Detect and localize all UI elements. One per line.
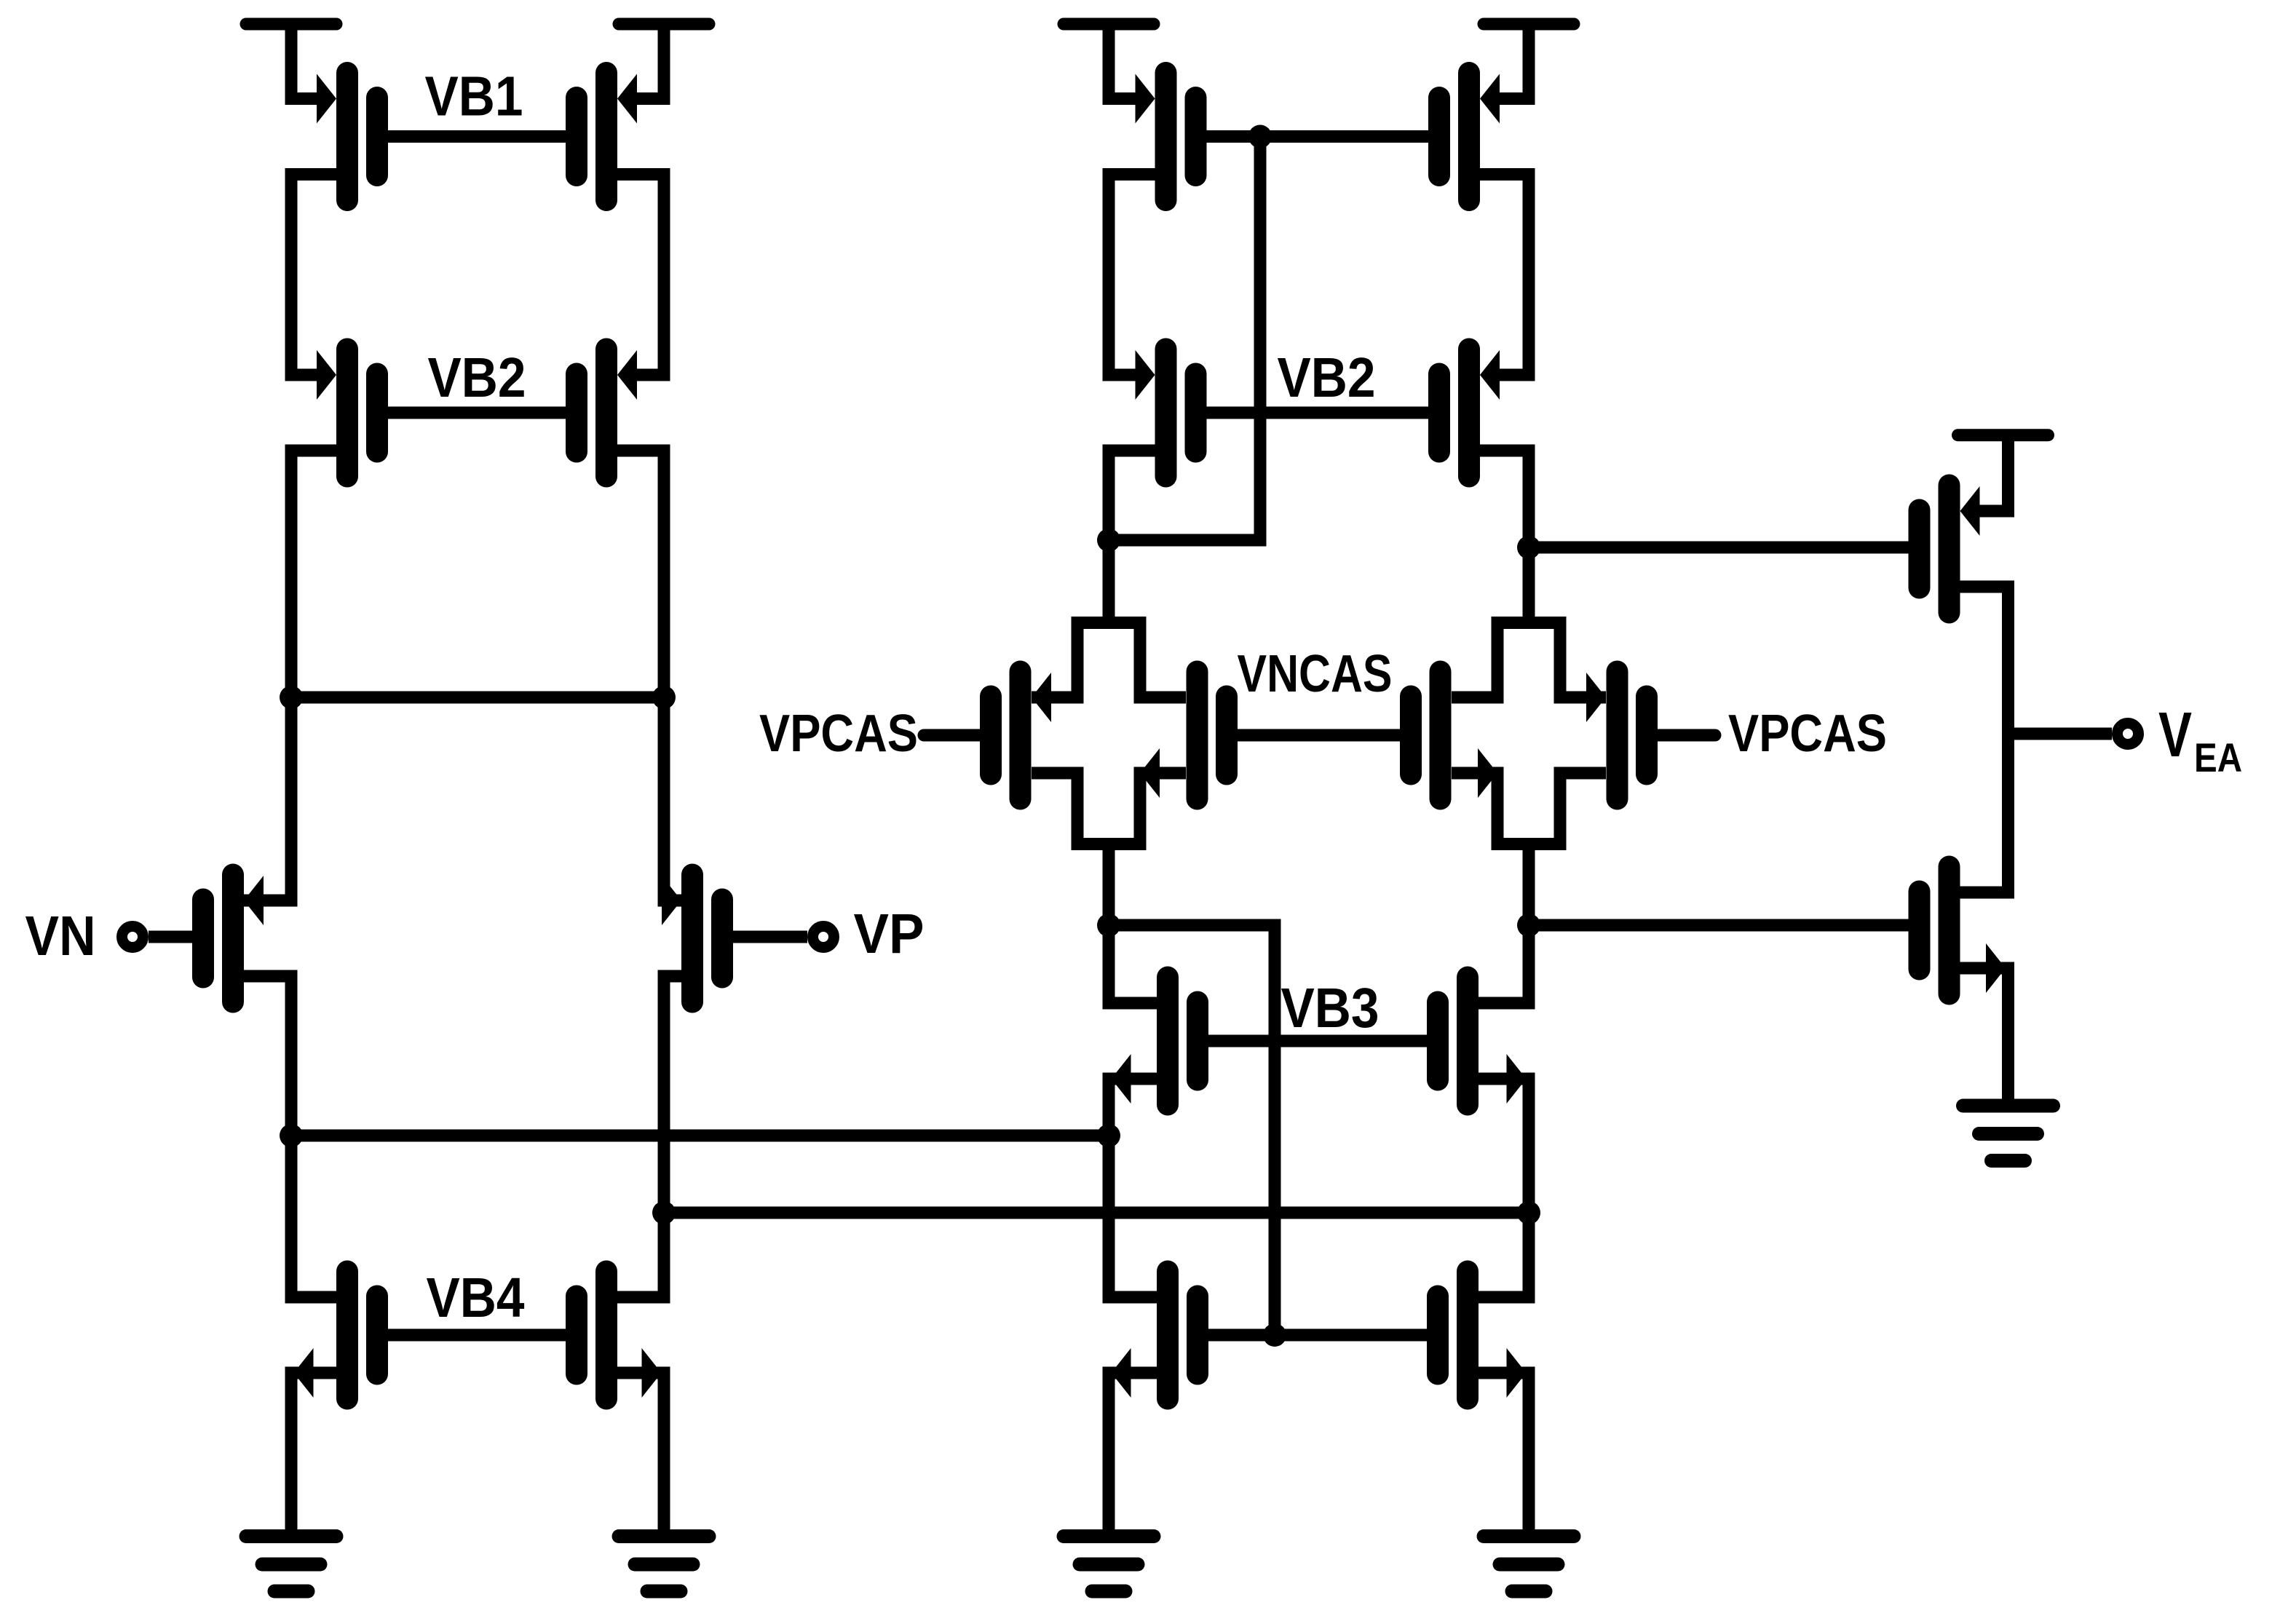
junction on bottom-mid gate rail (1263, 1323, 1286, 1347)
svg-text:VB1: VB1 (425, 66, 523, 128)
wire VDD to M10 source (1498, 24, 1529, 99)
transistor M8 (NMOS, VB4 right) (595, 1261, 617, 1410)
VDD supply rail (mid-left) (1064, 18, 1154, 31)
wire node C to gate-node elbow (1109, 137, 1260, 541)
VDD supply rail (output branch) (1958, 429, 2049, 441)
transistor M10 (PMOS, mid-right top) (1458, 62, 1480, 211)
wire M2 drain to M4 source (617, 175, 664, 376)
arrow M2 source (PMOS) (617, 74, 637, 124)
svg-text:EA: EA (2194, 734, 2242, 780)
transistor M13 gate bar (980, 686, 1002, 785)
svg-text:VPCAS: VPCAS (759, 705, 918, 763)
arrow M11 source (PMOS) (1136, 350, 1155, 400)
wire rail2 (VP drain / VB4R / VB3R source net) (664, 1207, 1529, 1219)
arrow M3 source (PMOS) (317, 350, 336, 400)
wire cross-R bottom lead (1523, 843, 1535, 925)
wire M12 drain to node D (1480, 451, 1529, 547)
node A junction (280, 686, 303, 709)
svg-text:VP: VP (854, 903, 925, 965)
transistor M11 (PMOS, VB2 mid-left) (1155, 338, 1177, 488)
arrow M20 source (NMOS) (1507, 1348, 1527, 1398)
transistor M19 (NMOS, mirror left) (1157, 1261, 1179, 1410)
transistor M3 (PMOS, VB2 left) (336, 338, 358, 488)
wire M9 drain to M11 source (1109, 175, 1155, 376)
svg-text:VB4: VB4 (427, 1267, 525, 1329)
transistor M15 channel (NMOS cascode VNCAS right) (1430, 661, 1452, 810)
wire M6 drain to rail2 (664, 976, 681, 1213)
wire M18 source to rail2 (1479, 1079, 1529, 1213)
arrow M17 source (NMOS) (1112, 1054, 1131, 1104)
VDD supply rail (far-left) (246, 18, 336, 31)
node gate-node junction (1248, 125, 1272, 148)
arrow M18 source (NMOS) (1507, 1054, 1527, 1104)
arrow M1 source (PMOS) (317, 74, 336, 124)
wire VB2 gate rail (388, 407, 566, 419)
wire node D to M21 gate (1529, 542, 1909, 554)
wire M8 drain to rail2 (617, 1213, 664, 1297)
wire bottom-mid gate rail (1208, 1329, 1427, 1342)
wire M4 drain to node B (617, 451, 664, 697)
node D junction (1517, 536, 1540, 559)
transistor M15 gate bar (1400, 686, 1422, 785)
wire M21 drain / output node / M22 drain (1960, 587, 2008, 892)
wire M1 drain to M3 source (291, 175, 336, 376)
node E junction (cross-L bottom / VB3L drain) (1097, 914, 1120, 937)
wire VB3 gate rail (1208, 1035, 1427, 1047)
arrow M12 source (PMOS) (1480, 350, 1500, 400)
ground (below M8) (619, 1529, 709, 1543)
node B junction (652, 686, 676, 709)
wire node E to bottom-mid gate rail (1109, 925, 1275, 1335)
wire M22 source to ground (1960, 968, 2008, 1099)
wire output to VEA terminal (2008, 728, 2113, 740)
wire node F to M22 gate (1529, 919, 1909, 932)
wire M18 drain (1479, 925, 1529, 1003)
arrow M5 source (PMOS) (244, 876, 264, 925)
wire VP gate (733, 931, 807, 943)
transistor M14 channel (NMOS cascode VNCAS left) (1187, 661, 1208, 810)
svg-text:VN: VN (25, 905, 96, 967)
svg-text:VB3: VB3 (1281, 977, 1380, 1039)
wire M6 source to node B (664, 697, 681, 900)
svg-text:VB2: VB2 (1278, 346, 1376, 409)
arrow M19 source (NMOS) (1112, 1348, 1131, 1398)
transistor M20 (NMOS, mirror right) (1457, 1261, 1479, 1410)
transistor M14 gate bar (1216, 686, 1238, 785)
transistor M21 (PMOS output) (1939, 475, 1960, 624)
node C junction (1097, 528, 1120, 552)
wire VDD to M2 source (636, 24, 664, 99)
wire M17 source to rail1 (1109, 1079, 1157, 1136)
arrow M9 source (PMOS) (1136, 74, 1155, 124)
wire M8 source to ground (617, 1373, 664, 1530)
wire M5 drain to rail1 (244, 976, 291, 1136)
wire cross-L top lead (1103, 540, 1115, 627)
terminal VP circle (813, 927, 834, 948)
node (cross-R body) (1452, 623, 1606, 698)
arrow M13 source (PMOS) (1032, 673, 1051, 722)
wire mid top gate rail (1207, 130, 1429, 143)
VDD supply rail (far-left right) (619, 18, 709, 31)
transistor M1 (PMOS, VB1 left) (336, 62, 358, 211)
transistor M12 (PMOS, VB2 mid-right) (1458, 338, 1480, 488)
transistor M22 (NMOS output) (1939, 856, 1960, 1005)
wire M19 source to ground (1109, 1373, 1157, 1530)
svg-text:VPCAS: VPCAS (1728, 705, 1887, 763)
ground (below M7) (246, 1529, 336, 1543)
wire M5 source to node A (244, 697, 291, 900)
ground (below M19) (1064, 1529, 1154, 1543)
svg-text:VB2: VB2 (428, 346, 526, 409)
wire VDD to M21 source (1979, 435, 2008, 511)
transistor M7 (NMOS, VB4 left) (336, 1261, 358, 1410)
wire VN gate (149, 931, 192, 943)
arrow M8 source (NMOS) (642, 1348, 662, 1398)
wire VNCAS gate rail (1238, 729, 1400, 742)
arrow M15 source (NMOS) (1478, 748, 1497, 798)
terminal VN circle (122, 927, 143, 948)
junction rail2 left (652, 1201, 676, 1224)
transistor M16 channel (PMOS cascode VPCAS right) (1607, 661, 1628, 810)
wire VPCAS left stub (924, 729, 980, 742)
ground (below M20) (1484, 1529, 1574, 1543)
wire VB1 gate rail (388, 130, 566, 143)
wire M3 drain to node A (291, 451, 336, 697)
arrow M16 source (PMOS) (1586, 673, 1606, 722)
transistor M18 (NMOS, VB3 right) (1457, 967, 1479, 1116)
junction rail2 right (1517, 1201, 1540, 1224)
transistor M4 (PMOS, VB2 right) (595, 338, 617, 488)
node F junction (cross-R bottom / VB3R drain / M22 gate) (1517, 914, 1540, 937)
wire VDD to M9 source (1109, 24, 1137, 99)
wire rail1 (VN drain / VB4L / VB3L source net) (291, 1130, 1109, 1142)
wire node A to node B rail (291, 692, 664, 704)
wire M10 drain to M12 source (1480, 175, 1529, 376)
wire VDD to M1 source (291, 24, 318, 99)
VDD supply rail (mid-right) (1484, 18, 1574, 31)
transistor M13 channel (PMOS cascode VPCAS left) (1010, 661, 1032, 810)
wire M7 source to ground (291, 1373, 336, 1530)
transistor M16 gate bar (1636, 686, 1658, 785)
wire M20 source to ground (1479, 1373, 1529, 1530)
wire VB4 gate rail (388, 1329, 566, 1342)
wire cross-L bottom lead (1103, 843, 1115, 925)
junction rail1 left (280, 1124, 303, 1147)
wire M7 drain to rail1 (291, 1136, 336, 1297)
wire M17 drain (1109, 925, 1157, 1003)
transistor M9 (PMOS, mid-left top) (1155, 62, 1177, 211)
wire VB2 mid gate rail (1207, 407, 1429, 419)
wire M11 drain to node C (1109, 451, 1155, 540)
junction rail1 right (1097, 1124, 1120, 1147)
svg-text:VNCAS: VNCAS (1238, 645, 1393, 703)
arrow M4 source (PMOS) (617, 350, 637, 400)
svg-text:V: V (2158, 700, 2192, 770)
transistor M5 (PMOS input VN) (222, 864, 244, 1013)
arrow M22 source (NMOS) (1986, 943, 2006, 993)
terminal VEA circle (2118, 724, 2139, 745)
arrow M21 source (PMOS) (1960, 486, 1980, 536)
wire cross-R top lead (1523, 547, 1535, 627)
wire M20 drain to rail2 (1479, 1213, 1529, 1297)
transistor M6 (PMOS input VP) (681, 864, 703, 1013)
arrow M6 source (PMOS) (662, 876, 681, 925)
arrow M14 source (NMOS) (1140, 748, 1160, 798)
transistor M17 (NMOS, VB3 left) (1157, 967, 1179, 1116)
wire M19 drain to rail1 (1109, 1136, 1157, 1297)
arrow M10 source (PMOS) (1480, 74, 1500, 124)
node (cross-L body) (1032, 623, 1186, 698)
arrow M7 source (NMOS) (294, 1348, 314, 1398)
wire VPCAS right stub (1658, 729, 1715, 742)
ground (below M22) (1963, 1099, 2054, 1113)
transistor M2 (PMOS, VB1 right) (595, 62, 617, 211)
